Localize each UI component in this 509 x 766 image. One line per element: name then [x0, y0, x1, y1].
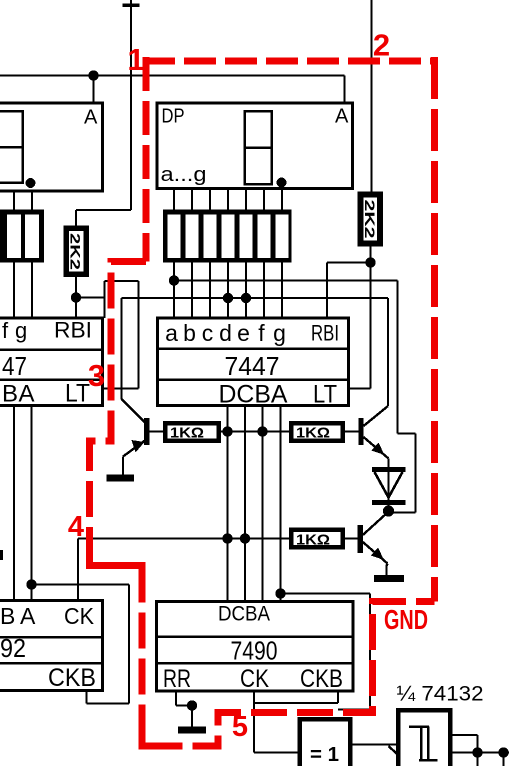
- 7-segment display DIS1 (left, partially cut): [0, 103, 103, 191]
- svg-text:= 1: = 1: [310, 744, 339, 766]
- transistor Q3 base bar: [358, 525, 363, 553]
- resistor R1 1KOhm: [149, 430, 163, 432]
- svg-text:a: a: [165, 320, 178, 346]
- svg-text:7490: 7490: [231, 636, 278, 666]
- svg-text:e: e: [237, 320, 250, 346]
- IC U4 7492 (left, partially cut): [0, 601, 103, 691]
- node junction RR: [187, 700, 197, 710]
- wire columns D C B A from U2 to U3 7490: [226, 406, 228, 602]
- svg-text:RBI: RBI: [54, 318, 92, 343]
- node dot column A: [275, 588, 285, 598]
- node dot output 1: [472, 747, 482, 757]
- node junction left display supply: [88, 70, 98, 80]
- node dot output 2: [498, 747, 508, 757]
- svg-text:g: g: [273, 320, 286, 346]
- wire stub at left edge: [0, 550, 3, 560]
- transistor Q1 emitter: [123, 440, 146, 457]
- svg-text:2K2: 2K2: [362, 200, 378, 239]
- resistor network RN2 (7 segment resistors): [163, 210, 292, 263]
- wire segment lines RN1 to 7447 left: [13, 263, 15, 319]
- transistor Q2 emitter: [364, 437, 389, 459]
- wire segment lines a-g RN2 to 7447 right: [173, 263, 175, 319]
- 7-segment display DIS2: [157, 103, 353, 189]
- svg-text:5: 5: [232, 711, 248, 743]
- wire supply rail to displays: [130, 0, 132, 210]
- transistor Q1 collector wire: [120, 389, 122, 400]
- svg-text:1: 1: [127, 42, 144, 77]
- row divider U2: [158, 347, 349, 350]
- svg-text:b: b: [183, 320, 196, 346]
- digit glyph middle bar DIS2: [245, 146, 272, 149]
- svg-text:CKB: CKB: [48, 664, 96, 692]
- row divider U2: [158, 378, 349, 381]
- digit glyph of DIS2: [245, 111, 272, 184]
- wire CK of U3 down to XOR gate input: [253, 691, 255, 753]
- wire anode supply line to displays: [0, 74, 345, 76]
- resistor R2 1KOhm: [289, 421, 345, 443]
- wire CK-7492 riser to base line 3: [77, 539, 79, 602]
- wire to right display A pin: [343, 76, 345, 104]
- wire R1 to R2: [221, 430, 289, 432]
- wire to left display A pin: [92, 76, 94, 104]
- svg-text:CK: CK: [240, 665, 269, 693]
- svg-text:DCBA: DCBA: [218, 603, 270, 626]
- transistor Q1 base bar: [144, 418, 149, 445]
- node junction R3 / RBI net: [71, 292, 81, 302]
- svg-text:f: f: [2, 318, 9, 343]
- wire stub crossbar at top of rail: [123, 4, 140, 8]
- gate U5 XOR =1: [298, 717, 353, 766]
- row divider U3: [157, 662, 354, 665]
- gate U6 Schmitt NAND 74132: [396, 708, 453, 766]
- svg-text:4: 4: [68, 511, 84, 543]
- svg-text:a...g: a...g: [161, 164, 207, 186]
- wire XOR output to NAND input: [353, 743, 397, 745]
- transistor Q2 collector: [364, 406, 389, 426]
- svg-text:GND: GND: [384, 604, 428, 635]
- svg-text:A: A: [20, 603, 36, 629]
- svg-text:c: c: [202, 320, 214, 346]
- resistor R5 1KOhm: [289, 528, 345, 550]
- wire U6 output: [453, 734, 478, 736]
- wire R4 junction down to LT of 7447 right: [369, 263, 371, 389]
- transistor Q3 collector: [363, 513, 387, 535]
- wire A-column to CKB of U4: [32, 583, 130, 585]
- node dot on segment e wire: [241, 293, 251, 303]
- node dot column B / base line: [257, 426, 267, 436]
- transistor Q3 emitter: [363, 542, 388, 564]
- resistor R4 2K2 (right): [358, 192, 384, 247]
- wire R3 to RBI of 7447 left: [75, 277, 77, 318]
- svg-text:3: 3: [88, 358, 105, 393]
- svg-text:92: 92: [0, 633, 26, 663]
- wire bypass from segment-a line to diode cathode: [396, 281, 398, 434]
- red boundary corner patches: [90, 552, 105, 566]
- wire net d,e to Q2 collector (line 2): [122, 297, 389, 299]
- node dot on segment a wire: [169, 275, 179, 285]
- svg-text:1KΩ: 1KΩ: [296, 425, 330, 442]
- wire RBI-left corner link: [76, 296, 105, 298]
- svg-text:RBI: RBI: [311, 321, 339, 346]
- svg-text:B: B: [2, 381, 18, 408]
- resistor R3 2K2 (left): [64, 226, 90, 278]
- node dot on column A left: [26, 579, 36, 589]
- svg-text:2K2: 2K2: [68, 233, 84, 270]
- ground symbol G1: [107, 475, 135, 482]
- hysteresis symbol U6: [409, 725, 429, 728]
- svg-text:47: 47: [2, 351, 27, 381]
- node junction below R4: [365, 257, 375, 267]
- red boundary right (net 2): [431, 57, 438, 602]
- IC U2 7447 (right): [158, 318, 349, 406]
- svg-text:LT: LT: [313, 381, 337, 409]
- wire R4 junction to RBI of 7447 right: [327, 261, 371, 263]
- svg-text:d: d: [219, 320, 232, 346]
- wire net segment-a to diode bypass (line 1): [174, 279, 398, 281]
- red boundary top (net 1 to 2): [143, 58, 435, 65]
- ground symbol G2: [374, 575, 404, 582]
- svg-text:LT: LT: [65, 380, 90, 408]
- IC U3 7490: [157, 602, 354, 692]
- svg-text:¼ 74132: ¼ 74132: [397, 683, 484, 706]
- row divider U1: [0, 348, 103, 351]
- svg-text:A: A: [19, 381, 35, 408]
- IC U1 7447 (left, partially cut): [0, 318, 103, 406]
- wire supply rail right (to resistor R4 2K2): [370, 0, 372, 192]
- svg-text:RR: RR: [163, 665, 191, 693]
- decimal point of DIS2: [277, 178, 287, 188]
- wire columns B A from U1 to U4: [13, 406, 15, 601]
- wire R2 to Q2 base: [345, 430, 358, 432]
- row divider U4: [0, 662, 103, 665]
- wire rail to R3 2K2 left: [76, 209, 131, 211]
- node dot on segment d wire: [223, 293, 233, 303]
- node junction diode cathode: [383, 505, 394, 516]
- node dot column D / line 3: [222, 533, 232, 543]
- svg-text:DP: DP: [162, 106, 185, 128]
- svg-text:CK: CK: [64, 603, 95, 629]
- transistor Q2 base bar: [358, 418, 363, 445]
- resistor network RN1 (left, partially cut): [0, 210, 44, 263]
- node dot column D / base line: [222, 426, 232, 436]
- svg-text:B: B: [0, 603, 15, 629]
- svg-text:g: g: [15, 318, 27, 343]
- wire segment stubs DIS1 to RN1: [13, 191, 15, 210]
- wire CKB of U3 to XOR gate input: [337, 691, 339, 703]
- digit glyph middle bar DIS1: [0, 146, 23, 149]
- red boundary lower loop (nets 3 4 5 GND): [90, 262, 435, 747]
- red boundary vertical below 1: [143, 57, 150, 262]
- svg-text:1KΩ: 1KΩ: [170, 425, 204, 442]
- svg-text:A: A: [335, 106, 349, 128]
- digit glyph of DIS1: [0, 111, 23, 183]
- svg-text:CKB: CKB: [300, 665, 343, 693]
- svg-text:7447: 7447: [225, 351, 280, 381]
- node dot column C / line 3: [240, 533, 250, 543]
- decimal point of DIS1: [26, 178, 36, 188]
- ground symbol G3: [178, 727, 206, 734]
- row divider U1: [0, 378, 103, 381]
- diode D1: [372, 467, 406, 472]
- svg-text:2: 2: [373, 28, 390, 63]
- wire R5 to Q3 base: [345, 537, 358, 539]
- wire R4 bottom: [369, 247, 371, 263]
- wire segment stubs DIS2 to RN2: [173, 189, 175, 210]
- row divider U3: [157, 635, 354, 638]
- wire LT-left row link: [103, 387, 139, 389]
- svg-text:DCBA: DCBA: [219, 381, 288, 409]
- svg-text:A: A: [84, 107, 98, 129]
- wire RR of U3 to ground: [175, 691, 177, 706]
- svg-text:f: f: [258, 320, 265, 346]
- svg-text:1KΩ: 1KΩ: [296, 531, 330, 548]
- row divider U4: [0, 636, 103, 639]
